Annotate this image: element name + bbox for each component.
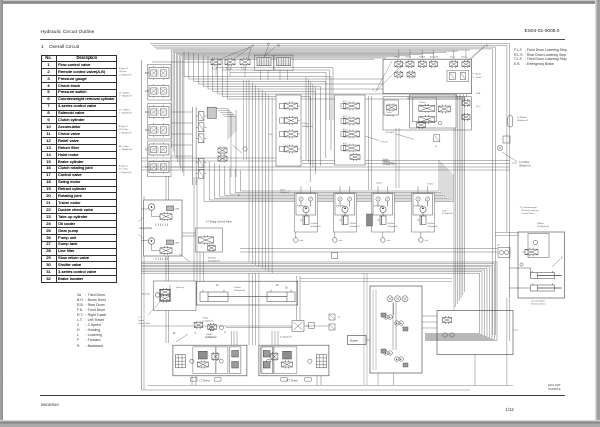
svg-text:R.D.C: R.D.C [462,57,468,59]
svg-text:10 960bar: 10 960bar [517,116,527,119]
svg-text:(150kgf/cm²): (150kgf/cm²) [234,289,246,292]
svg-text:11: 11 [338,317,341,319]
svg-text:Travel: Travel [386,112,392,114]
svg-text:T.D.C: T.D.C [450,57,456,59]
svg-text:(~ 35kgf/cm²): (~ 35kgf/cm²) [119,112,132,115]
svg-text:18-B: 18-B [268,134,273,136]
svg-text:Detent: Detent [138,319,145,322]
svg-text:R.T Device: R.T Device [287,380,299,382]
svg-text:200bar: 200bar [537,222,544,225]
svg-text:(~35kgf/cm²): (~35kgf/cm²) [119,171,132,174]
svg-text:07- 300bar: 07- 300bar [119,92,130,95]
svg-text:590bar: 590bar [383,160,390,163]
svg-text:(45kgf/cm²): (45kgf/cm²) [388,225,398,228]
svg-text:(4-21ps: (4-21ps [119,71,127,73]
svg-text:(250kgf/cm²): (250kgf/cm²) [383,163,396,166]
svg-text:Swing B.: Swing B. [430,57,439,59]
svg-text:(2-10kgf/cm²): (2-10kgf/cm²) [280,336,292,339]
svg-text:2150psi: 2150psi [234,287,242,289]
svg-text:(45kgf/cm²): (45kgf/cm²) [302,125,313,128]
svg-text:P.B. Valve: P.B. Valve [297,206,307,208]
svg-text:pilot: pilot [300,239,304,242]
svg-text:(0.5kgf/cm²): (0.5kgf/cm²) [442,212,453,215]
svg-text:A.D.2: A.D.2 [343,100,347,103]
svg-text:(45kgf/cm²): (45kgf/cm²) [428,225,438,228]
svg-text:Engine: Engine [350,340,358,343]
svg-text:Counterweight: Counterweight [531,300,545,303]
svg-text:(~16kgf/cm²): (~16kgf/cm²) [119,131,132,134]
svg-text:24: 24 [497,245,500,247]
svg-text:17 Counterweight: 17 Counterweight [520,206,538,209]
svg-text:4: 4 [238,193,240,197]
svg-text:(Extend): (Extend) [142,293,150,296]
svg-text:L.T: L.T [138,317,142,319]
svg-text:21: 21 [173,333,176,335]
svg-text:Removal device: Removal device [531,304,547,306]
svg-text:A.D.2: A.D.2 [343,115,347,118]
svg-text:(85kgf/cm²): (85kgf/cm²) [519,165,531,168]
svg-text:pilot: pilot [387,239,391,242]
svg-text:F.D: F.D [145,91,149,93]
svg-text:AP- 4 5ps: AP- 4 5ps [119,145,130,148]
svg-text:R.D.B: R.D.B [406,57,412,59]
svg-text:(2-10kgf/cm²): (2-10kgf/cm²) [205,336,217,339]
svg-text:A Type 3-: A Type 3- [119,67,128,70]
svg-text:8: 8 [373,90,375,92]
svg-text:110bar: 110bar [419,101,426,104]
svg-text:F.D.B: F.D.B [395,57,401,59]
svg-text:(96kgf/cm²): (96kgf/cm²) [517,119,528,122]
svg-text:4-10ps: 4-10ps [302,123,310,125]
svg-text:(07-4.5ps: (07-4.5ps [119,129,129,131]
svg-text:(45kgf/cm²): (45kgf/cm²) [311,225,321,228]
svg-text:110bar: 110bar [376,183,382,185]
svg-text:(7kgf/cm²): (7kgf/cm²) [419,104,429,107]
svg-text:(210kgf/cm²): (210kgf/cm²) [537,225,550,228]
svg-text:R.D: R.D [145,112,149,114]
svg-text:4-10bar: 4-10bar [428,223,435,225]
svg-text:3rd: 3rd [145,129,149,132]
svg-text:E - Brake: E - Brake [473,72,483,75]
svg-text:7 For 30: 7 For 30 [380,142,388,144]
svg-text:Control Valve: Control Valve [138,322,151,325]
svg-text:pilot: pilot [425,239,429,242]
svg-text:A Type 3-: A Type 3- [119,125,128,128]
svg-text:A Type 2-: A Type 2- [119,165,128,168]
svg-text:Swing Motor: Swing Motor [140,227,153,230]
svg-text:15: 15 [194,333,197,335]
svg-text:3rd Motor: 3rd Motor [414,205,423,208]
svg-text:4-10bar: 4-10bar [388,223,395,225]
svg-text:A.D.2: A.D.2 [343,142,347,145]
svg-text:A.D.2: A.D.2 [343,128,347,131]
svg-text:SCB: SCB [476,93,481,95]
svg-text:(~ 35kgf/cm²): (~ 35kgf/cm²) [119,148,132,151]
svg-text:L.T: L.T [145,167,149,169]
svg-text:13 120bar: 13 120bar [519,161,530,164]
svg-text:170bar: 170bar [427,184,434,186]
svg-text:280/2bar: 280/2bar [208,257,217,260]
svg-text:(0.7/kgf/cm²): (0.7/kgf/cm²) [208,260,220,263]
svg-text:(45kgf/cm²): (45kgf/cm²) [350,225,360,228]
svg-text:07- 2.9ps: 07- 2.9ps [119,169,129,171]
svg-text:L.T Device: L.T Device [199,380,211,382]
svg-text:F.L.S: F.L.S [212,69,218,71]
svg-text:(Retract): (Retract) [176,286,184,289]
svg-text:Lowerage: Lowerage [386,115,396,117]
svg-text:(~ 35kgf/cm²): (~ 35kgf/cm²) [119,95,132,98]
svg-text:17 Swing Control Valve: 17 Swing Control Valve [206,221,232,224]
svg-text:07- 300bar: 07- 300bar [119,109,130,112]
svg-text:B.H.B: B.H.B [420,57,426,59]
svg-text:5-Mpa: 5-Mpa [202,318,209,320]
svg-text:4-10bar: 4-10bar [350,223,357,225]
svg-text:1-MB: 1-MB [175,209,180,211]
svg-text:pilot: pilot [339,239,343,242]
svg-text:P.B. Valve: P.B. Valve [336,206,346,208]
svg-text:22: 22 [224,332,227,334]
svg-text:(~16kgf/cm²): (~16kgf/cm²) [119,73,132,76]
svg-text:24: 24 [435,146,438,148]
svg-text:4-10bar: 4-10bar [311,223,318,225]
svg-text:R.T: R.T [145,150,149,152]
svg-text:Control Valve: Control Valve [522,212,536,215]
svg-text:24-C: 24-C [476,106,481,108]
svg-text:Raising Lowering: Raising Lowering [522,209,540,212]
svg-text:1-MB: 1-MB [175,243,180,245]
svg-text:No LBCS: No LBCS [386,132,395,134]
svg-text:C - Clutch: C - Clutch [473,76,483,79]
svg-text:(1.5kgf/cm²): (1.5kgf/cm²) [202,319,213,322]
svg-text:B.H: B.H [145,73,149,75]
svg-text:(1kgf/cm²): (1kgf/cm²) [280,191,289,194]
svg-text:B.H. Motor: B.H. Motor [374,205,384,208]
